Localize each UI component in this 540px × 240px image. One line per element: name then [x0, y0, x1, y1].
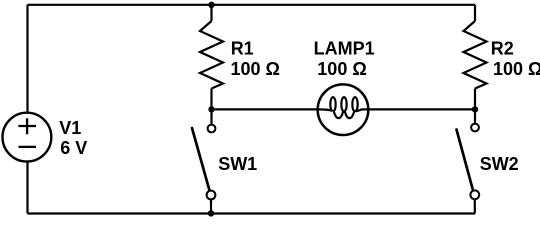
wire SW1 bottom stub	[210, 200, 212, 214]
wire middle left	[212, 108, 319, 110]
voltage source V1	[3, 113, 52, 162]
node R1 bottom junction	[208, 106, 214, 112]
wire SW1 top stub	[210, 109, 212, 124]
wire middle right	[369, 108, 475, 110]
lamp LAMP1	[318, 84, 369, 135]
resistor R2	[464, 21, 487, 89]
svg-text:100 Ω: 100 Ω	[493, 59, 540, 79]
svg-text:R2: R2	[491, 39, 514, 59]
svg-text:100 Ω: 100 Ω	[317, 59, 366, 79]
wire R1 top stub	[210, 5, 212, 21]
wire SW2 top stub	[474, 109, 476, 123]
wire R2 bottom stub	[474, 89, 476, 110]
resistor R1	[200, 21, 223, 89]
node R2 bottom junction	[472, 106, 478, 112]
svg-text:100 Ω: 100 Ω	[231, 59, 280, 79]
wire top	[28, 4, 476, 6]
wire R1 bottom stub	[210, 89, 212, 110]
switch SW2	[457, 124, 480, 200]
wire SW2 bottom stub	[474, 200, 476, 214]
svg-text:6 V: 6 V	[60, 138, 87, 158]
svg-text:SW1: SW1	[218, 154, 257, 174]
svg-text:SW2: SW2	[480, 154, 519, 174]
node R1 top junction	[208, 2, 214, 8]
node SW1 bottom junction	[208, 210, 214, 216]
svg-text:V1: V1	[59, 118, 81, 138]
wire left upper	[26, 5, 28, 113]
wire R2 top stub	[474, 5, 476, 21]
svg-text:R1: R1	[231, 39, 254, 59]
svg-text:LAMP1: LAMP1	[314, 39, 375, 59]
wire bottom	[28, 212, 476, 214]
switch SW1	[192, 125, 215, 200]
wire left lower	[26, 161, 28, 213]
